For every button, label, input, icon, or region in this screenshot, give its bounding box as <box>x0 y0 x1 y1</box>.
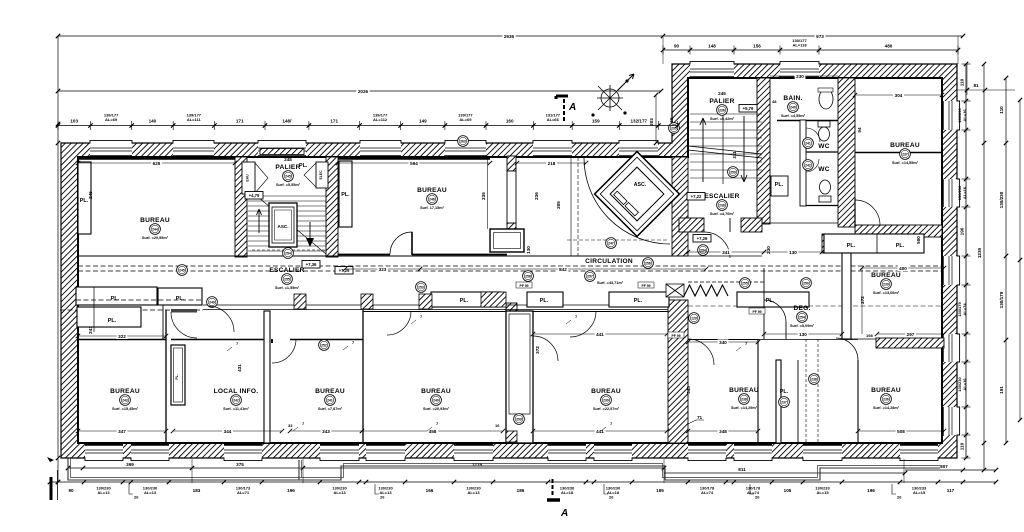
svg-text:AL=16: AL=16 <box>962 109 967 122</box>
svg-text:245: 245 <box>284 157 292 162</box>
svg-text:94: 94 <box>857 127 862 133</box>
svg-text:BUREAU: BUREAU <box>871 387 901 394</box>
svg-text:240: 240 <box>433 398 439 402</box>
svg-text:250: 250 <box>803 281 809 285</box>
svg-text:257: 257 <box>587 274 593 278</box>
svg-text:Surf. =7,87m²: Surf. =7,87m² <box>318 407 343 411</box>
svg-text:PL.: PL. <box>634 298 643 304</box>
svg-text:Surf. =13,06m²: Surf. =13,06m² <box>873 291 900 295</box>
svg-text:130: 130 <box>526 246 531 254</box>
svg-text:255: 255 <box>284 277 290 281</box>
svg-text:BUREAU: BUREAU <box>315 388 345 395</box>
svg-text:A: A <box>560 508 568 519</box>
svg-text:PL.: PL. <box>780 389 789 395</box>
svg-text:249: 249 <box>209 300 215 304</box>
svg-text:973: 973 <box>816 34 824 39</box>
svg-text:237: 237 <box>781 400 787 404</box>
svg-text:245: 245 <box>88 191 93 199</box>
svg-text:LOCAL INFO.: LOCAL INFO. <box>214 388 259 395</box>
svg-text:311: 311 <box>732 151 737 159</box>
svg-text:130: 130 <box>789 250 797 255</box>
svg-text:252: 252 <box>321 343 327 347</box>
svg-text:255: 255 <box>742 281 748 285</box>
svg-text:237: 237 <box>902 152 908 156</box>
svg-text:347: 347 <box>118 429 126 434</box>
svg-text:PL.: PL. <box>341 192 350 198</box>
svg-text:Surf. =20,95m²: Surf. =20,95m² <box>142 236 169 240</box>
svg-text:117: 117 <box>947 488 955 493</box>
svg-text:272: 272 <box>860 296 865 304</box>
svg-text:26: 26 <box>609 495 614 500</box>
svg-text:AL=15: AL=15 <box>913 490 926 495</box>
svg-text:129: 129 <box>691 316 697 320</box>
svg-text:AL=13: AL=13 <box>333 490 346 495</box>
svg-text:205: 205 <box>556 201 561 209</box>
svg-text:240: 240 <box>790 105 796 109</box>
svg-text:441: 441 <box>596 332 604 337</box>
svg-text:242: 242 <box>805 163 811 167</box>
svg-text:508: 508 <box>897 429 905 434</box>
svg-text:EAU: EAU <box>246 174 250 182</box>
svg-text:+5,79: +5,79 <box>743 106 754 111</box>
svg-text:PF 99: PF 99 <box>752 310 761 314</box>
svg-text:PF 99: PF 99 <box>641 284 650 288</box>
svg-text:Surf. =15,45m²: Surf. =15,45m² <box>112 407 139 411</box>
svg-text:183: 183 <box>193 488 201 493</box>
svg-text:PL.: PL. <box>540 298 549 304</box>
svg-text:Surf. =20,93m²: Surf. =20,93m² <box>423 407 450 411</box>
svg-text:AL=18: AL=18 <box>561 490 574 495</box>
svg-text:26: 26 <box>134 495 139 500</box>
svg-text:246: 246 <box>429 197 435 201</box>
svg-text:130/179: 130/179 <box>999 291 1004 308</box>
svg-text:241: 241 <box>327 398 333 402</box>
svg-text:PF 99: PF 99 <box>671 334 680 338</box>
svg-text:Surf. 17,15m²: Surf. 17,15m² <box>420 206 445 210</box>
svg-text:304: 304 <box>895 93 903 98</box>
svg-text:ASC.: ASC. <box>278 224 289 229</box>
svg-text:90: 90 <box>68 488 74 493</box>
svg-text:2936: 2936 <box>504 34 515 39</box>
svg-text:245: 245 <box>285 174 291 178</box>
svg-text:198: 198 <box>866 333 873 338</box>
svg-text:130/230: 130/230 <box>999 191 1004 208</box>
svg-text:Surf. =4,76m²: Surf. =4,76m² <box>710 212 735 216</box>
svg-text:DEG.: DEG. <box>793 305 810 312</box>
svg-text:259: 259 <box>730 170 736 174</box>
svg-text:Surf. =43,71m²: Surf. =43,71m² <box>597 281 624 285</box>
svg-text:500: 500 <box>916 236 921 244</box>
svg-text:242: 242 <box>233 398 239 402</box>
svg-text:480: 480 <box>885 44 893 49</box>
svg-text:BUREAU: BUREAU <box>729 387 759 394</box>
svg-text:90: 90 <box>674 44 680 49</box>
svg-text:241: 241 <box>805 141 811 145</box>
svg-text:159: 159 <box>592 119 600 124</box>
svg-text:BUREAU: BUREAU <box>140 217 170 224</box>
svg-text:BAIN.: BAIN. <box>783 95 802 102</box>
svg-text:191: 191 <box>999 386 1004 394</box>
svg-text:256: 256 <box>645 261 651 265</box>
svg-text:PL.: PL. <box>111 296 120 302</box>
svg-text:132/177: 132/177 <box>630 119 647 124</box>
svg-text:239: 239 <box>603 398 609 402</box>
svg-text:149: 149 <box>419 119 427 124</box>
svg-text:811: 811 <box>738 467 746 472</box>
svg-text:160: 160 <box>506 119 514 124</box>
svg-text:254: 254 <box>799 315 805 319</box>
svg-text:341: 341 <box>722 250 730 255</box>
svg-text:PL.: PL. <box>896 243 905 249</box>
svg-text:372: 372 <box>535 346 540 354</box>
svg-text:344: 344 <box>224 429 232 434</box>
svg-text:195: 195 <box>656 488 664 493</box>
svg-text:458: 458 <box>429 429 437 434</box>
svg-text:65: 65 <box>669 117 674 123</box>
svg-text:238: 238 <box>811 377 817 381</box>
svg-text:196: 196 <box>960 227 965 235</box>
svg-text:AL=13: AL=13 <box>144 490 157 495</box>
svg-text:375: 375 <box>236 462 244 467</box>
svg-text:PF 99: PF 99 <box>519 284 528 288</box>
svg-text:2026: 2026 <box>358 89 369 94</box>
svg-text:842: 842 <box>559 267 567 272</box>
svg-text:+7,26: +7,26 <box>697 236 708 241</box>
svg-text:BUREAU: BUREAU <box>890 142 920 149</box>
svg-text:254: 254 <box>285 251 291 255</box>
svg-text:369: 369 <box>126 462 134 467</box>
svg-text:Surf. =11,41m²: Surf. =11,41m² <box>223 407 250 411</box>
svg-text:33: 33 <box>288 423 293 428</box>
svg-text:WC: WC <box>818 166 830 173</box>
svg-text:Surf. =4,55m²: Surf. =4,55m² <box>781 114 806 118</box>
svg-text:PL.: PL. <box>176 296 185 302</box>
svg-text:Surf. =5,09m²: Surf. =5,09m² <box>790 324 815 328</box>
svg-text:AL=66: AL=66 <box>547 117 560 122</box>
svg-text:BUREAU: BUREAU <box>417 187 447 194</box>
svg-text:Surf. =5,42m²: Surf. =5,42m² <box>710 117 735 121</box>
svg-text:323: 323 <box>379 267 387 272</box>
svg-text:203: 203 <box>649 118 654 126</box>
svg-text:105: 105 <box>784 488 792 493</box>
svg-text:A: A <box>568 102 576 113</box>
svg-text:Surf. =14,28m²: Surf. =14,28m² <box>873 406 900 410</box>
svg-text:BUREAU: BUREAU <box>421 388 451 395</box>
svg-text:343: 343 <box>686 386 691 394</box>
svg-text:AL=16: AL=16 <box>962 378 967 391</box>
svg-text:196: 196 <box>867 488 875 493</box>
svg-text:CIRCULATION: CIRCULATION <box>585 258 633 265</box>
svg-text:297: 297 <box>907 332 915 337</box>
svg-text:263: 263 <box>460 139 466 143</box>
svg-text:AL=74: AL=74 <box>962 303 967 316</box>
svg-text:AL=111: AL=111 <box>187 117 202 122</box>
svg-text:PALIER: PALIER <box>275 164 300 171</box>
svg-text:AL=69: AL=69 <box>105 117 118 122</box>
svg-text:71: 71 <box>697 415 703 420</box>
svg-text:PL.: PL. <box>108 318 117 324</box>
svg-text:ELEC: ELEC <box>319 170 323 180</box>
svg-text:140: 140 <box>149 119 157 124</box>
svg-text:156: 156 <box>753 44 761 49</box>
svg-text:625: 625 <box>153 161 161 166</box>
svg-text:AL=16: AL=16 <box>962 186 967 199</box>
svg-text:431: 431 <box>237 364 242 372</box>
svg-text:AL=13: AL=13 <box>467 490 480 495</box>
svg-text:+7,22: +7,22 <box>691 194 702 199</box>
svg-text:196: 196 <box>287 488 295 493</box>
svg-text:130: 130 <box>799 332 807 337</box>
svg-text:48: 48 <box>772 99 777 104</box>
svg-text:AL=13: AL=13 <box>97 490 110 495</box>
svg-text:PL.: PL. <box>775 182 784 188</box>
svg-text:230: 230 <box>796 74 804 79</box>
svg-text:AL=112: AL=112 <box>373 117 388 122</box>
svg-text:236: 236 <box>534 192 539 200</box>
svg-text:Surf. =5,55m²: Surf. =5,55m² <box>276 183 301 187</box>
svg-text:AL=118: AL=118 <box>792 43 807 48</box>
svg-text:230: 230 <box>766 246 771 254</box>
svg-text:BUREAU: BUREAU <box>110 388 140 395</box>
svg-text:26: 26 <box>755 495 760 500</box>
svg-text:235: 235 <box>481 192 486 200</box>
svg-text:238: 238 <box>741 397 747 401</box>
svg-text:AL=71: AL=71 <box>237 490 250 495</box>
svg-text:AL=69: AL=69 <box>459 117 472 122</box>
svg-text:171: 171 <box>236 119 244 124</box>
svg-text:103: 103 <box>70 119 78 124</box>
svg-text:110: 110 <box>999 106 1004 114</box>
svg-text:243: 243 <box>122 398 128 402</box>
svg-text:AL=74: AL=74 <box>701 490 714 495</box>
svg-text:348: 348 <box>719 429 727 434</box>
svg-text:594: 594 <box>410 161 418 166</box>
svg-text:244: 244 <box>152 227 158 231</box>
svg-text:171: 171 <box>330 119 338 124</box>
svg-text:340: 340 <box>719 340 727 345</box>
svg-text:807: 807 <box>940 464 948 469</box>
svg-text:148: 148 <box>708 44 716 49</box>
svg-text:Surf. =22,57m²: Surf. =22,57m² <box>593 407 620 411</box>
svg-text:PL.: PL. <box>299 163 308 169</box>
svg-text:239: 239 <box>883 282 889 286</box>
svg-text:218: 218 <box>548 161 556 166</box>
svg-text:245: 245 <box>179 268 185 272</box>
svg-text:236: 236 <box>883 397 889 401</box>
svg-text:259: 259 <box>516 417 522 421</box>
svg-text:245: 245 <box>718 91 726 96</box>
svg-text:16: 16 <box>495 423 500 428</box>
svg-text:Surf. =14,55m²: Surf. =14,55m² <box>892 161 919 165</box>
svg-text:26: 26 <box>897 495 902 500</box>
svg-text:PALIER: PALIER <box>709 98 734 105</box>
svg-text:Surf. =14,29m²: Surf. =14,29m² <box>731 406 758 410</box>
svg-text:258: 258 <box>525 274 531 278</box>
svg-text:343: 343 <box>322 429 330 434</box>
svg-text:WC: WC <box>818 143 830 150</box>
svg-text:+7,36: +7,36 <box>306 262 317 267</box>
svg-text:241: 241 <box>88 326 93 334</box>
svg-text:400: 400 <box>899 266 907 271</box>
svg-text:186: 186 <box>517 488 525 493</box>
svg-text:148/: 148/ <box>282 119 292 124</box>
svg-text:110: 110 <box>960 442 965 450</box>
svg-text:253: 253 <box>418 285 424 289</box>
svg-text:238: 238 <box>719 203 725 207</box>
svg-text:81: 81 <box>973 83 979 88</box>
svg-text:PL.: PL. <box>460 298 469 304</box>
svg-text:1239: 1239 <box>977 247 982 258</box>
svg-text:322: 322 <box>118 334 126 339</box>
svg-text:110: 110 <box>960 78 965 86</box>
svg-text:PL.: PL. <box>175 374 179 379</box>
svg-text:ESCALIER: ESCALIER <box>269 267 304 274</box>
svg-text:+4,79: +4,79 <box>249 193 260 198</box>
svg-text:PL.: PL. <box>847 243 856 249</box>
svg-text:BUREAU: BUREAU <box>871 272 901 279</box>
svg-text:236: 236 <box>719 108 725 112</box>
svg-text:ASC.: ASC. <box>634 182 647 188</box>
svg-text:BUREAU: BUREAU <box>591 388 621 395</box>
svg-text:166: 166 <box>426 488 434 493</box>
svg-text:Surf. =1,55m²: Surf. =1,55m² <box>275 286 300 290</box>
svg-text:AL=15: AL=15 <box>816 490 829 495</box>
svg-text:ESCALIER: ESCALIER <box>704 193 739 200</box>
svg-text:26: 26 <box>380 495 385 500</box>
svg-text:247: 247 <box>608 241 614 245</box>
